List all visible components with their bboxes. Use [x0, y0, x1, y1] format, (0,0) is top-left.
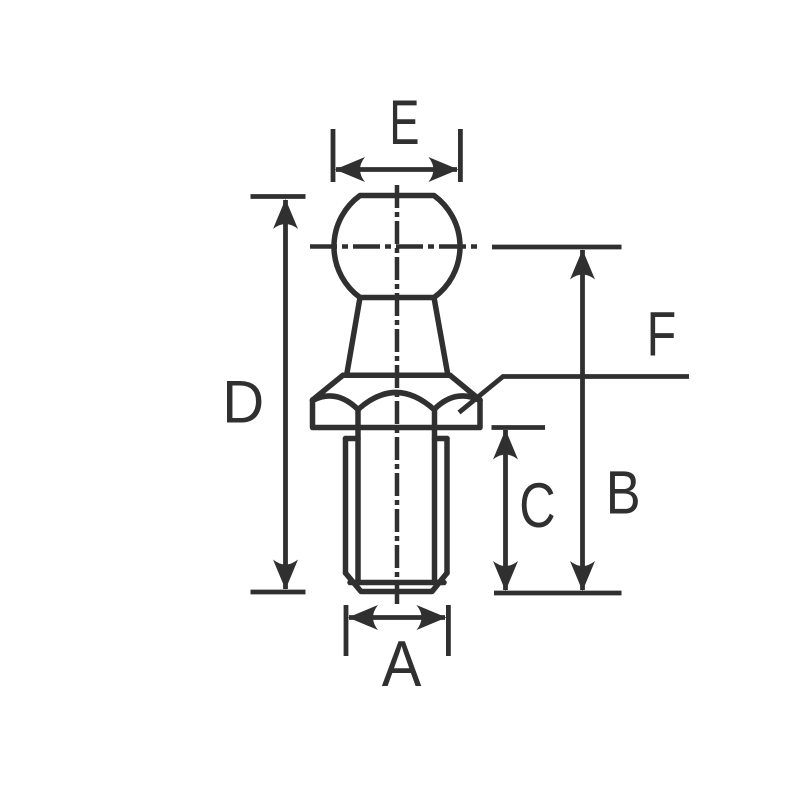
svg-text:C: C	[519, 470, 555, 541]
svg-text:A: A	[382, 629, 422, 701]
svg-text:D: D	[222, 368, 264, 436]
svg-text:E: E	[389, 87, 419, 158]
svg-text:B: B	[606, 458, 641, 527]
svg-text:F: F	[647, 299, 677, 370]
